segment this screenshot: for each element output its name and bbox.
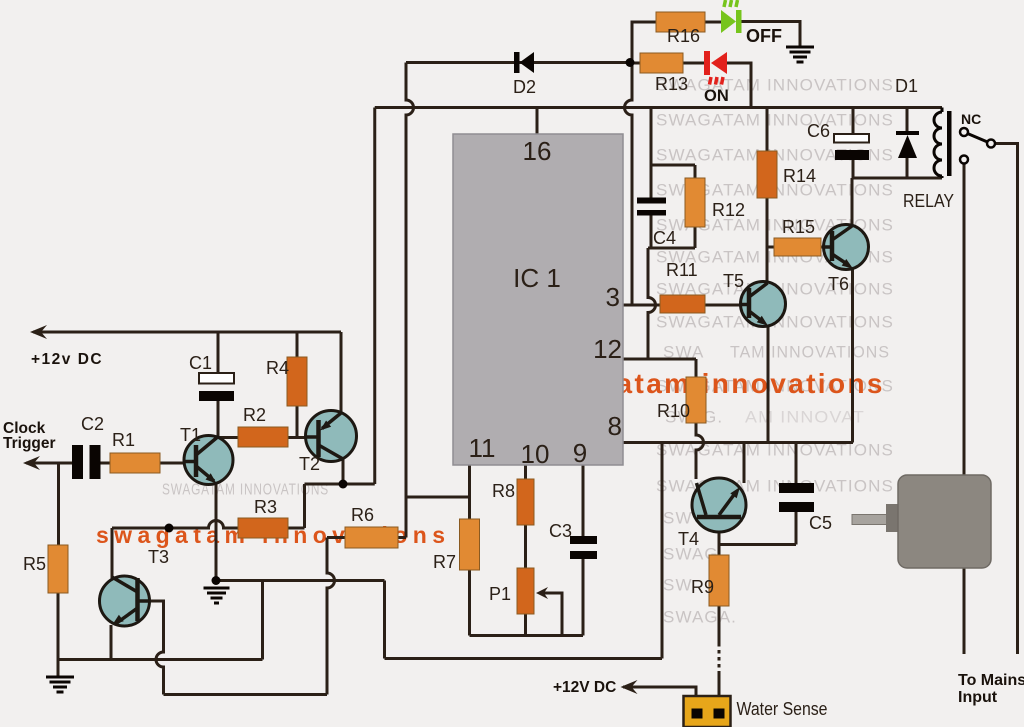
svg-text:SW: SW: [663, 575, 693, 594]
svg-text:R6: R6: [351, 505, 374, 525]
svg-text:R14: R14: [783, 166, 816, 186]
svg-text:R9: R9: [691, 577, 714, 597]
svg-text:TAM INNOVATIONS: TAM INNOVATIONS: [730, 342, 890, 361]
svg-text:C6: C6: [807, 121, 830, 141]
svg-text:R2: R2: [243, 405, 266, 425]
svg-text:R11: R11: [666, 260, 698, 280]
svg-text:+12V DC: +12V DC: [553, 679, 616, 696]
svg-text:SWAGA.: SWAGA.: [663, 607, 737, 626]
svg-text:C4: C4: [653, 228, 676, 248]
svg-text:OFF: OFF: [746, 26, 782, 46]
svg-text:SWAGATAM INNOVATIONS: SWAGATAM INNOVATIONS: [656, 75, 894, 94]
svg-text:T2: T2: [299, 454, 320, 474]
svg-text:16: 16: [523, 136, 552, 166]
svg-text:T4: T4: [678, 529, 699, 549]
svg-text:T3: T3: [148, 547, 169, 567]
svg-text:D1: D1: [895, 76, 918, 96]
svg-text:NC: NC: [961, 111, 981, 127]
svg-text:C2: C2: [81, 414, 104, 434]
svg-text:C5: C5: [809, 513, 832, 533]
svg-text:P1: P1: [489, 584, 511, 604]
svg-text:To Mains: To Mains: [958, 672, 1024, 689]
svg-text:R12: R12: [712, 200, 745, 220]
svg-text:9: 9: [573, 438, 587, 468]
svg-text:Input: Input: [958, 689, 998, 706]
svg-text:SWAGATAM INNOVATIONS: SWAGATAM INNOVATIONS: [656, 110, 894, 129]
svg-text:R13: R13: [655, 74, 688, 94]
svg-text:3: 3: [606, 282, 620, 312]
svg-text:10: 10: [521, 439, 550, 469]
svg-text:ON: ON: [704, 87, 729, 105]
svg-text:R5: R5: [23, 554, 46, 574]
svg-text:R8: R8: [492, 481, 515, 501]
svg-text:+12v DC: +12v DC: [31, 351, 103, 368]
svg-text:T5: T5: [723, 271, 744, 291]
svg-text:C1: C1: [189, 353, 212, 373]
svg-text:11: 11: [469, 433, 496, 463]
svg-text:D2: D2: [513, 77, 536, 97]
svg-text:SWAGATAM INNOVATIONS: SWAGATAM INNOVATIONS: [656, 476, 894, 495]
svg-text:Water Sense: Water Sense: [737, 699, 828, 719]
svg-text:R7: R7: [433, 552, 456, 572]
svg-text:R4: R4: [266, 358, 289, 378]
svg-text:R10: R10: [657, 401, 690, 421]
svg-text:AM INNOVAT: AM INNOVAT: [745, 407, 865, 426]
svg-text:T1: T1: [180, 425, 201, 445]
svg-text:Trigger: Trigger: [3, 435, 56, 452]
svg-text:R1: R1: [112, 430, 135, 450]
svg-text:8: 8: [608, 411, 622, 441]
svg-text:IC 1: IC 1: [513, 263, 561, 293]
svg-text:T6: T6: [828, 274, 849, 294]
svg-text:R15: R15: [782, 217, 815, 237]
svg-text:R16: R16: [667, 26, 700, 46]
svg-text:12: 12: [593, 334, 622, 364]
svg-text:SW: SW: [663, 508, 693, 527]
svg-text:C3: C3: [549, 521, 572, 541]
svg-text:R3: R3: [254, 497, 277, 517]
svg-text:RELAY: RELAY: [903, 191, 954, 211]
